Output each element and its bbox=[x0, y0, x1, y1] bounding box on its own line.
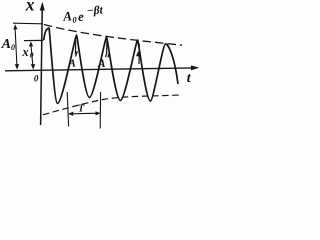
amplitude mark inside peak 4 bbox=[138, 44, 140, 65]
svg-text:0: 0 bbox=[30, 51, 34, 60]
A0 dimension arrow (double headed vertical) bbox=[15, 26, 17, 68]
envelope formula label A0 e^-bt bbox=[62, 4, 105, 25]
T dimension arrow (double headed horizontal) bbox=[69, 112, 100, 115]
x axis (vertical, extends below origin) bbox=[41, 4, 43, 125]
upper envelope (dashed) bbox=[44, 25, 182, 46]
svg-text:0: 0 bbox=[34, 73, 39, 83]
svg-text:A: A bbox=[62, 8, 73, 24]
damped oscillation curve bbox=[44, 28, 178, 104]
t axis arrowhead bbox=[191, 65, 199, 70]
t axis (horizontal line with left extension for dimension arrows) bbox=[5, 68, 193, 71]
svg-text:x: x bbox=[21, 45, 28, 59]
svg-text:e: e bbox=[78, 9, 85, 24]
T interval left vertical line bbox=[67, 92, 68, 127]
svg-text:A: A bbox=[68, 58, 76, 70]
svg-text:x: x bbox=[25, 0, 35, 14]
svg-text:−βt: −βt bbox=[86, 4, 104, 17]
x0 top tick bbox=[24, 39, 43, 41]
svg-text:0: 0 bbox=[11, 43, 15, 52]
T interval right vertical line bbox=[99, 92, 101, 129]
amplitude mark inside peak 3 bbox=[106, 41, 108, 53]
lower envelope (dashed) bbox=[43, 95, 180, 115]
svg-text:T: T bbox=[78, 104, 85, 115]
amplitude mark inside peak 2 bbox=[74, 41, 76, 55]
A0 top tick (at envelope start level) bbox=[13, 22, 43, 25]
svg-text:A: A bbox=[1, 37, 11, 52]
svg-text:A: A bbox=[97, 58, 106, 70]
x0 dimension arrow (double headed vertical) bbox=[31, 43, 33, 68]
x axis arrowhead bbox=[40, 2, 45, 11]
